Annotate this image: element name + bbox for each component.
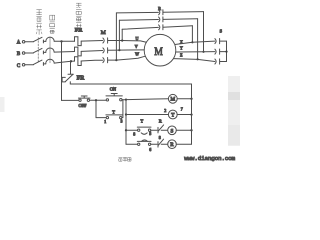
vertical label isolation switch bbox=[36, 10, 42, 35]
thermal relay FR NC contact bbox=[62, 74, 73, 84]
T self-hold contact bbox=[106, 115, 122, 119]
T timed NC contact bbox=[137, 140, 151, 146]
isolation switch QS linkage bbox=[37, 38, 39, 64]
junction dot on X line bbox=[191, 41, 193, 43]
contactor S contact X bbox=[215, 39, 220, 44]
node3 rail down bbox=[125, 100, 127, 145]
coil T bbox=[168, 110, 177, 119]
contactor M main contact B bbox=[103, 48, 108, 53]
wire FR to right rail top bbox=[70, 83, 191, 85]
svg-text:T: T bbox=[171, 112, 175, 118]
isolation switch QS blade C bbox=[34, 60, 43, 64]
svg-text:T: T bbox=[112, 109, 115, 114]
svg-text:R: R bbox=[159, 118, 162, 123]
FR NC contact branch bbox=[70, 61, 72, 74]
wire R row from rail bbox=[126, 143, 137, 145]
junction dot tee B bbox=[118, 49, 120, 51]
FR heater element B bbox=[75, 47, 82, 56]
wire X motor to S contact bbox=[175, 41, 215, 44]
wire A contact to motor bbox=[108, 41, 146, 43]
gray sidebar block right edge bbox=[228, 76, 240, 146]
junction dot node 1 bbox=[95, 99, 97, 101]
isolation switch QS blade A bbox=[34, 37, 43, 41]
branch node1 down bbox=[95, 100, 97, 117]
svg-text:Y: Y bbox=[180, 45, 183, 50]
FR heater element A bbox=[75, 37, 82, 46]
wire T row to coil T bbox=[126, 114, 168, 116]
junction dot star bar bbox=[225, 51, 227, 53]
svg-text:A: A bbox=[17, 41, 21, 46]
circuit breaker QF pole A bbox=[46, 37, 54, 41]
vertical label thermal relay bbox=[76, 3, 81, 27]
junction dot T row bbox=[125, 113, 127, 115]
wire X to star bar bbox=[220, 40, 226, 42]
vertical label circuit breaker bbox=[50, 15, 55, 33]
circuit breaker QF linkage bbox=[49, 38, 51, 63]
svg-text:M: M bbox=[154, 44, 163, 58]
svg-text:FR: FR bbox=[75, 28, 83, 34]
junction dot S row rail bbox=[190, 129, 192, 131]
node C terminal bbox=[22, 64, 25, 67]
junction dot FR tap on phase C bbox=[70, 60, 72, 62]
svg-text:ON: ON bbox=[110, 86, 117, 91]
wire C heater to M contact bbox=[81, 59, 102, 62]
svg-text:S: S bbox=[220, 28, 223, 33]
drop wire bus1 to Y bbox=[203, 12, 205, 52]
gray smudge left edge bbox=[0, 97, 5, 112]
junction dot M row rail bbox=[190, 98, 192, 100]
svg-text:V: V bbox=[135, 44, 138, 49]
wire coil S to right rail bbox=[176, 129, 191, 131]
circuit breaker QF pole C bbox=[46, 59, 54, 64]
top bus 2 bbox=[119, 19, 197, 21]
svg-text:M: M bbox=[170, 97, 175, 103]
svg-text:8: 8 bbox=[133, 131, 135, 136]
svg-text:U: U bbox=[136, 36, 139, 41]
wire B contact to motor bbox=[108, 49, 144, 51]
caption bottom fake hanzi bbox=[119, 157, 131, 161]
wire S row from rail bbox=[126, 129, 137, 131]
wire B heater to M contact bbox=[81, 50, 102, 53]
coil S bbox=[168, 126, 177, 135]
coil R bbox=[168, 140, 177, 149]
svg-text:S: S bbox=[171, 128, 174, 134]
wire coil M to right rail bbox=[177, 98, 191, 100]
junction dot on Z line bbox=[197, 58, 199, 60]
wire A heater to M contact bbox=[81, 40, 102, 43]
wire rail to OFF button bbox=[62, 99, 79, 101]
wire T contact to node3 rail bbox=[122, 100, 123, 118]
svg-text:R: R bbox=[170, 142, 174, 148]
circuit breaker QF pole B bbox=[46, 48, 54, 52]
svg-text:7: 7 bbox=[181, 107, 183, 112]
wire to S interlock bbox=[151, 143, 157, 145]
wire phase C to switch bbox=[25, 64, 34, 66]
motor circle M bbox=[144, 34, 176, 66]
contactor M main contact C bbox=[103, 58, 108, 63]
svg-text:8: 8 bbox=[159, 135, 161, 140]
junction dot control tap on phase A bbox=[60, 40, 62, 42]
riser from C to top bus 3 bbox=[115, 13, 117, 60]
top bus 1 bbox=[116, 12, 203, 13]
wire B breaker to FR heater bbox=[54, 51, 74, 54]
wire coil R to right rail bbox=[176, 143, 191, 145]
wire Z motor to S contact bbox=[174, 59, 215, 62]
riser from B to top bus 2 bbox=[118, 20, 120, 50]
wire C contact to motor bbox=[108, 56, 145, 60]
node A terminal bbox=[22, 40, 25, 43]
junction dot node 3 bbox=[125, 98, 127, 100]
wire A switch to breaker bbox=[43, 40, 45, 43]
wire Z to star bar bbox=[220, 61, 226, 63]
wire C switch to breaker bbox=[43, 63, 45, 66]
svg-text:M: M bbox=[101, 30, 106, 36]
drop wire bus3 to X bbox=[191, 26, 193, 43]
svg-text:W: W bbox=[135, 51, 139, 56]
wire Y motor to S contact bbox=[176, 51, 215, 53]
wire ON to node 3 bbox=[122, 99, 126, 101]
contactor S contact Z bbox=[215, 59, 220, 64]
junction dot tee A bbox=[121, 39, 123, 41]
svg-text:OFF: OFF bbox=[79, 103, 87, 108]
svg-text:FR: FR bbox=[77, 75, 86, 81]
isolation switch QS blade B bbox=[34, 48, 43, 52]
contactor S contact Y bbox=[215, 49, 220, 54]
star point bar bbox=[226, 41, 228, 61]
drop wire bus2 to Z bbox=[197, 19, 199, 60]
junction dot S row bbox=[125, 129, 127, 131]
wire coil T to right rail bbox=[177, 114, 191, 116]
junction dot T row rail bbox=[190, 113, 192, 115]
svg-text:T: T bbox=[141, 119, 144, 124]
R interlock NC contact bbox=[158, 125, 168, 133]
svg-text:6: 6 bbox=[149, 147, 151, 152]
svg-text:B: B bbox=[17, 52, 21, 57]
wire node3 to coil M bbox=[126, 98, 168, 101]
wire OFF to node 1 bbox=[90, 99, 106, 101]
right rail bbox=[191, 84, 193, 144]
ON button NO bbox=[106, 94, 122, 102]
svg-text:Z: Z bbox=[180, 53, 183, 58]
OFF button NC bbox=[78, 96, 90, 101]
wire C breaker to FR heater bbox=[54, 61, 74, 63]
junction dot on Y line bbox=[202, 51, 204, 53]
riser from A to top bus 1 bbox=[121, 29, 123, 40]
contactor R contact bus2 bbox=[159, 17, 163, 22]
svg-text:3: 3 bbox=[121, 118, 123, 123]
svg-text:1: 1 bbox=[104, 119, 106, 124]
svg-text:2: 2 bbox=[164, 108, 166, 113]
control left rail from phase A bbox=[61, 41, 63, 100]
FR heater element C bbox=[75, 57, 82, 66]
coil M bbox=[168, 94, 177, 103]
wire to T selfhold contact bbox=[96, 117, 106, 119]
T timed NO contact bbox=[137, 127, 151, 134]
wire phase B to switch bbox=[25, 52, 34, 54]
svg-text:C: C bbox=[17, 64, 20, 69]
S interlock NC contact bbox=[158, 139, 168, 147]
contactor R contact bus1 bbox=[159, 10, 163, 15]
contactor R contact bus3 bbox=[159, 25, 163, 30]
contactor M main contact A bbox=[103, 38, 108, 43]
top bus 3 bbox=[122, 26, 192, 30]
wire Y to star bar bbox=[220, 51, 226, 53]
wire phase A to switch bbox=[25, 41, 34, 43]
svg-text:www.diangon.com: www.diangon.com bbox=[184, 155, 235, 162]
node B terminal bbox=[22, 52, 25, 55]
junction dot tee C bbox=[115, 59, 117, 61]
wire B switch to breaker bbox=[43, 51, 45, 54]
svg-text:5: 5 bbox=[149, 131, 151, 136]
wire A breaker to FR heater bbox=[54, 40, 74, 42]
wire to R interlock bbox=[151, 129, 157, 131]
